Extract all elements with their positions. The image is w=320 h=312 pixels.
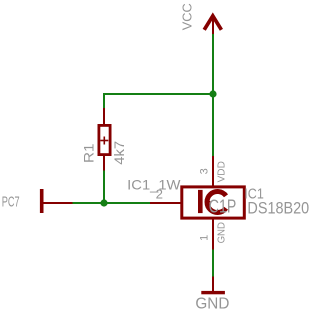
supply VCC arrow (204, 16, 221, 34)
svg-text:VCC: VCC (180, 3, 195, 30)
svg-text:DS18B20: DS18B20 (247, 200, 309, 218)
svg-text:C1P: C1P (209, 197, 237, 217)
wire R1 bottom to net (103, 171, 105, 205)
wire IC pin 1 to GND (212, 249, 214, 276)
svg-text:IC1_1W: IC1_1W (127, 177, 180, 192)
wire VCC vertical (212, 34, 214, 94)
svg-text:PC7: PC7 (2, 195, 20, 211)
wire vertical to R1 (103, 93, 105, 109)
wire horizontal PC7 net (73, 202, 151, 204)
svg-text:4k7: 4k7 (111, 141, 127, 165)
junction node VCC (209, 90, 216, 97)
wire junction to IC pin 3 (212, 94, 214, 156)
port PC7 (40, 189, 73, 213)
svg-text:VDD: VDD (217, 161, 228, 182)
svg-text:1: 1 (199, 235, 211, 241)
svg-text:GND: GND (195, 296, 229, 312)
resistor R1 (99, 108, 110, 171)
svg-text:R1: R1 (81, 143, 97, 163)
ground GND (201, 276, 225, 294)
svg-text:GND: GND (217, 222, 228, 243)
svg-text:3: 3 (199, 168, 211, 174)
IC1 DS18B20 body (150, 156, 244, 249)
junction node R1/PC7 (100, 199, 107, 206)
svg-text:2: 2 (156, 187, 163, 202)
wire horizontal top (103, 93, 214, 95)
